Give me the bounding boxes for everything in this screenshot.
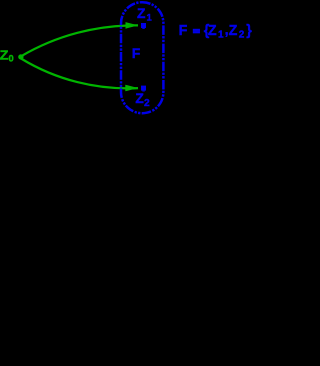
svg-text:1: 1 bbox=[218, 30, 224, 41]
svg-text:1: 1 bbox=[147, 12, 153, 23]
formula F = {Z1,Z2} bbox=[179, 22, 253, 40]
point marker Z1 bbox=[141, 23, 146, 29]
node Z0 (green dot) bbox=[18, 54, 23, 59]
svg-text:2: 2 bbox=[144, 98, 150, 109]
svg-text:0: 0 bbox=[9, 53, 14, 63]
set boundary F (dashed stadium) bbox=[121, 2, 163, 113]
arrow Z0 to Z2 (curved) bbox=[21, 59, 138, 89]
point marker Z2 bbox=[141, 86, 146, 92]
svg-text:Z: Z bbox=[137, 6, 146, 21]
svg-text:Z: Z bbox=[0, 49, 9, 63]
svg-text:F: F bbox=[179, 23, 188, 39]
svg-text:2: 2 bbox=[239, 30, 245, 41]
arrowhead Z1 bbox=[126, 22, 139, 29]
svg-text:}: } bbox=[246, 23, 252, 39]
arrowhead Z2 bbox=[125, 85, 138, 92]
label Z1 bbox=[137, 6, 153, 23]
svg-text:Z: Z bbox=[208, 23, 217, 39]
label Z0 bbox=[0, 49, 14, 64]
label Z2 bbox=[135, 91, 150, 109]
svg-text:Z: Z bbox=[229, 23, 238, 39]
svg-text:F: F bbox=[132, 45, 141, 61]
arrow Z0 to Z1 (curved) bbox=[21, 25, 138, 56]
